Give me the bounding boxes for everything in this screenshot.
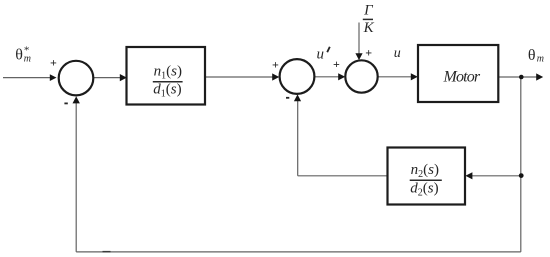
svg-text:u: u — [394, 46, 401, 61]
svg-text:+: + — [365, 46, 372, 60]
svg-text:n2(s): n2(s) — [411, 162, 439, 180]
svg-text:+: + — [333, 57, 340, 71]
svg-text:u: u — [317, 46, 325, 62]
svg-text:d1(s): d1(s) — [153, 82, 181, 100]
svg-text:Γ: Γ — [363, 3, 374, 19]
svg-text:θ: θ — [528, 47, 536, 64]
svg-text:d2(s): d2(s) — [410, 181, 438, 199]
svg-text:m: m — [537, 53, 544, 64]
svg-text:+: + — [272, 57, 279, 71]
svg-text:m: m — [24, 53, 31, 64]
svg-text:n1(s): n1(s) — [154, 64, 182, 82]
svg-text:Motor: Motor — [443, 68, 481, 85]
svg-text:+: + — [50, 56, 57, 70]
svg-text:K: K — [363, 20, 375, 36]
svg-text:θ: θ — [15, 47, 23, 64]
